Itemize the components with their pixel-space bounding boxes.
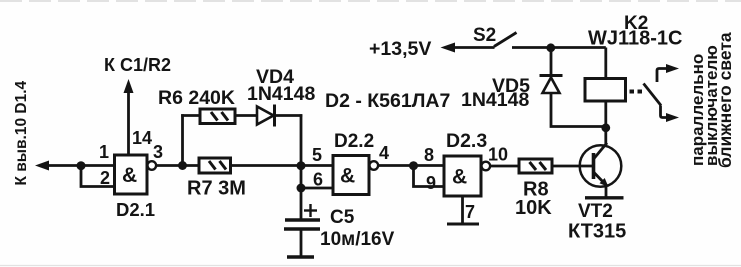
node collector junction bbox=[601, 123, 610, 132]
wire: loop to pin 9 of D2.3 bbox=[414, 166, 445, 187]
transistor VT2 bbox=[580, 143, 622, 187]
svg-text:+13,5V: +13,5V bbox=[369, 38, 431, 60]
svg-text:1: 1 bbox=[99, 142, 109, 162]
svg-text:D2 - К561ЛА7: D2 - К561ЛА7 bbox=[325, 90, 450, 112]
svg-text:3: 3 bbox=[153, 142, 163, 162]
svg-text:D2.3: D2.3 bbox=[446, 130, 487, 152]
svg-text:VT2: VT2 bbox=[578, 201, 613, 222]
wire: pin 14 up with arrow to К C1/R2 bbox=[127, 89, 130, 155]
wire: R6 to VD4 bbox=[235, 114, 257, 117]
svg-text:К C1/R2: К C1/R2 bbox=[104, 55, 171, 75]
svg-text:R6 240K: R6 240K bbox=[158, 87, 235, 109]
svg-text:D2.1: D2.1 bbox=[116, 199, 155, 220]
node A junction after D2.1 bbox=[178, 161, 187, 170]
svg-text:6: 6 bbox=[313, 170, 323, 190]
ground bar emitter VT2 bbox=[585, 196, 624, 199]
wire: R8 to VT2 base bbox=[552, 165, 594, 168]
wire: left output arrow line to К выв.10 D1.4 bbox=[44, 164, 114, 167]
capacitor C5 bottom plate bbox=[284, 227, 320, 230]
svg-text:R7 3M: R7 3M bbox=[187, 178, 246, 200]
wire: +13,5V rail right segment bbox=[512, 46, 606, 49]
wire: VD5 top bbox=[550, 48, 553, 74]
scan border bottom bbox=[0, 265, 741, 267]
arrowhead left (to К выв.10 D1.4) bbox=[35, 161, 49, 171]
svg-text:D2.2: D2.2 bbox=[334, 131, 374, 152]
node junction pin 6 / C5 bbox=[297, 184, 306, 193]
terminal bar below C5 bbox=[287, 255, 314, 258]
svg-text:10: 10 bbox=[488, 145, 508, 165]
node: D2.1 input junction bbox=[77, 161, 86, 170]
op-gate D2.2 body bbox=[333, 156, 369, 195]
wire: relay bottom to collector node bbox=[604, 101, 607, 127]
svg-text:C5: C5 bbox=[330, 207, 355, 228]
svg-text:ближнего света: ближнего света bbox=[715, 32, 735, 168]
contact arrow bottom bbox=[661, 106, 680, 123]
svg-text:КТ315: КТ315 bbox=[568, 221, 626, 243]
svg-text:&: & bbox=[340, 165, 355, 188]
wire: D2.1 output to R7 bbox=[156, 164, 199, 167]
svg-text:10K: 10K bbox=[515, 197, 552, 219]
svg-text:9: 9 bbox=[426, 173, 436, 193]
svg-text:14: 14 bbox=[132, 128, 152, 148]
wire: +13,5V rail left segment bbox=[450, 46, 495, 49]
svg-text:10м/16V: 10м/16V bbox=[320, 229, 395, 250]
wire: D2.2 output to D2.3 inputs bbox=[378, 164, 444, 167]
wire: relay top bbox=[604, 48, 607, 79]
contact arrow top bbox=[657, 64, 679, 82]
relay K2 coil bbox=[585, 79, 626, 102]
svg-text:5: 5 bbox=[312, 145, 322, 165]
wire: emitter down bbox=[605, 186, 608, 197]
arrowhead left (to +13,5V) bbox=[441, 43, 456, 53]
diode VD4 bbox=[257, 105, 275, 127]
switch S2 blade bbox=[494, 33, 517, 47]
node C junction at D2.3 input bbox=[409, 161, 418, 170]
diode VD5 bbox=[540, 76, 563, 94]
svg-text:К выв.10 D1.4: К выв.10 D1.4 bbox=[13, 80, 30, 185]
capacitor C5 plus sign bbox=[304, 204, 317, 217]
wire: C5 to bottom bar bbox=[300, 229, 303, 257]
wire: pin 6 of D2.2 bbox=[301, 187, 333, 190]
node B junction at D2.2 input bbox=[297, 161, 306, 170]
wire: collector up to relay bbox=[604, 127, 607, 144]
inversion circle pin 10 of D2.3 bbox=[482, 162, 491, 171]
wire: branch down to main line and C5 bbox=[300, 114, 303, 220]
wire: D2.3 output to R8 bbox=[490, 165, 519, 168]
svg-text:S2: S2 bbox=[473, 25, 496, 46]
wire: pin 7 down bbox=[461, 196, 464, 223]
relay contact blade bbox=[644, 84, 662, 106]
svg-text:1N4148: 1N4148 bbox=[461, 89, 529, 111]
wire: R7 to D2.2 pin 5 bbox=[231, 164, 334, 167]
svg-text:&: & bbox=[452, 166, 467, 189]
inversion circle pin 4 of D2.2 bbox=[370, 161, 379, 170]
capacitor C5 top plate bbox=[285, 218, 320, 221]
wire: VD4 to right branch corner bbox=[275, 114, 303, 117]
op-gate D2.3 body bbox=[444, 156, 481, 196]
wire: branch up to R6 bbox=[181, 114, 184, 165]
svg-text:4: 4 bbox=[379, 143, 389, 163]
svg-text:2: 2 bbox=[100, 168, 110, 188]
wire: top branch to R6 bbox=[181, 114, 200, 117]
wire: loop to pin 2 of D2.1 bbox=[81, 166, 114, 187]
resistor R8 bbox=[519, 159, 552, 173]
scan border top bbox=[0, 0, 741, 2]
arrowhead up (to К C1/R2) bbox=[124, 79, 134, 93]
inversion circle pin 3 of D2.1 bbox=[148, 161, 157, 170]
op-gate D2.1 body bbox=[115, 155, 148, 194]
terminal bar pin 7 bbox=[447, 223, 479, 226]
relay actuator dash-dot bbox=[630, 90, 643, 94]
svg-text:&: & bbox=[122, 164, 137, 187]
resistor R7 bbox=[199, 158, 231, 173]
svg-text:7: 7 bbox=[465, 202, 475, 222]
svg-text:1N4148: 1N4148 bbox=[247, 83, 315, 105]
node VD5 top junction bbox=[546, 43, 555, 52]
wire: VD5 bottom link bbox=[551, 93, 606, 127]
svg-text:8: 8 bbox=[424, 145, 434, 165]
resistor R6 bbox=[200, 109, 235, 124]
